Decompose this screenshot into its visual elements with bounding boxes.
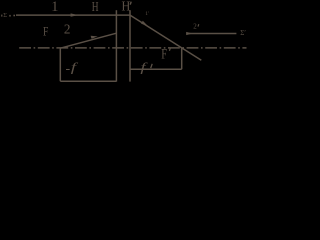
tick F left end — [59, 48, 61, 81]
svg-text:Σ: Σ — [3, 12, 7, 19]
svg-text:1′: 1′ — [145, 11, 149, 17]
svg-text:H: H — [92, 0, 99, 14]
svg-text:H: H — [122, 0, 131, 14]
wire ray 2' outgoing — [186, 33, 236, 35]
arrowhead ray 2 — [91, 36, 98, 39]
tick F' — [181, 48, 183, 69]
svg-text:F: F — [43, 26, 48, 40]
arrowhead ray 1 — [71, 13, 79, 16]
svg-text:1: 1 — [51, 0, 58, 15]
svg-text:Σ′: Σ′ — [240, 29, 246, 37]
wire ray 2 incoming — [60, 33, 116, 48]
optical axis (dash-dot) — [19, 47, 246, 49]
speck right of sigma — [9, 15, 10, 17]
speck left of sigma — [1, 15, 2, 17]
principal plane H' — [129, 10, 131, 81]
svg-text:F: F — [161, 45, 167, 62]
prime of 2' — [197, 24, 200, 26]
wire ray 1 incoming — [16, 14, 130, 16]
svg-text:2: 2 — [64, 22, 71, 37]
arrowhead ray 1' — [141, 21, 148, 26]
prime of f' — [151, 64, 153, 68]
prime of H' — [130, 2, 131, 5]
principal plane H — [115, 10, 117, 81]
dimension line f' — [130, 68, 182, 70]
dot at ray 1 start — [13, 15, 15, 17]
arrowhead ray 2' — [186, 32, 192, 35]
wire ray 1' refracted — [130, 15, 201, 60]
dimension line -f — [60, 80, 116, 82]
svg-text:2: 2 — [193, 22, 197, 30]
prime of F' — [169, 48, 170, 51]
